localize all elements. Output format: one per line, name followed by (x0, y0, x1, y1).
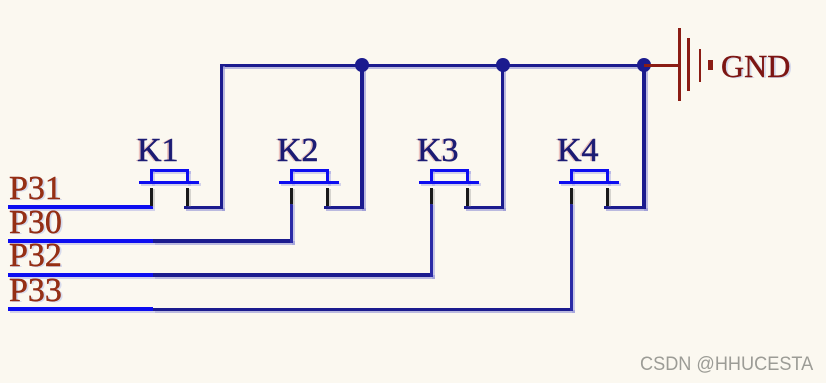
wire: K4 right pin to vertical (604, 206, 646, 209)
net P32 wire (blue segment) (8, 273, 153, 277)
ground symbol bar 1 (678, 28, 681, 102)
K3 actuator left side (430, 169, 433, 184)
switch K1 (0, 0, 1, 1)
power port name GND (721, 50, 790, 82)
watermark CSDN (640, 355, 813, 375)
K4 right pin (606, 188, 609, 206)
junction dot at K4 / GND (637, 58, 651, 72)
wire: K3 right pin to vertical (464, 206, 504, 209)
ground symbol bar 4 (708, 60, 713, 71)
label K3 (417, 134, 459, 168)
K2 left pin (290, 188, 293, 204)
K4 actuator right side (606, 169, 609, 184)
wire: K3 left pin down to P32 (430, 203, 433, 277)
K4 actuator left side (570, 169, 573, 184)
K3 contact bar (419, 181, 479, 184)
wire: GND stub (dark red) (644, 64, 680, 67)
net P30 wire (navy segment) (153, 239, 293, 242)
K3 right pin (466, 188, 469, 206)
net P31 wire (blue segment) (8, 205, 153, 209)
ground symbol bar 2 (687, 38, 690, 91)
K1 right pin (186, 188, 189, 206)
net P32 wire (navy segment) (153, 273, 433, 276)
junction dot at K2 column (355, 58, 369, 72)
ground symbol bar 3 (699, 49, 702, 82)
K2 actuator left side (290, 169, 293, 184)
K1 left pin (150, 188, 153, 206)
K2 actuator right side (326, 169, 329, 184)
wire: K2 left pin down to P30 (290, 203, 293, 243)
K4 actuator top (570, 169, 609, 172)
switch K3 (279, 0, 281, 1)
switch K2 (139, 0, 141, 1)
K2 actuator top (290, 169, 329, 172)
switch K4 (419, 0, 421, 1)
net P33 wire (navy segment) (153, 308, 573, 311)
wire: K2 right vertical to rail (360, 65, 363, 209)
K1 actuator right side (186, 169, 189, 184)
net label P31 (9, 172, 62, 206)
wire: top ground rail (220, 64, 646, 68)
K1 contact bar (139, 181, 199, 184)
K4 left pin (570, 188, 573, 204)
wire: K1 right vertical to rail (220, 64, 223, 209)
junction dot at K3 column (496, 58, 510, 72)
label K4 (557, 134, 599, 168)
wire: K4 right vertical to rail (642, 65, 645, 209)
wire: K1 right pin to vertical (184, 206, 223, 209)
wire: K3 right vertical to rail (501, 65, 504, 209)
K3 actuator right side (466, 169, 469, 184)
K2 right pin (326, 188, 329, 206)
wire: K4 left pin down to P33 (570, 203, 573, 311)
net P33 wire (blue segment) (8, 307, 153, 311)
label K1 (137, 134, 179, 168)
net label P30 (9, 206, 62, 240)
K1 actuator left side (150, 169, 153, 184)
K1 actuator top (150, 169, 189, 172)
label K2 (277, 134, 319, 168)
K3 actuator top (430, 169, 469, 172)
K4 contact bar (559, 181, 619, 184)
K2 contact bar (279, 181, 339, 184)
wire: K2 right pin to vertical (324, 206, 364, 209)
net label P32 (9, 239, 62, 273)
net P30 wire (blue segment) (8, 239, 153, 243)
K3 left pin (430, 188, 433, 204)
net label P33 (9, 274, 62, 308)
